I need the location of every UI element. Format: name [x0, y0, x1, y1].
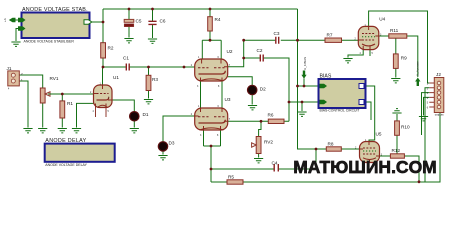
svg-text:C2: C2 [257, 48, 263, 53]
svg-text:R9: R9 [401, 56, 407, 61]
svg-text:ANODE VOLTAGE STABILISER: ANODE VOLTAGE STABILISER [24, 39, 75, 43]
svg-text:RV2: RV2 [264, 140, 273, 145]
svg-text:2: 2 [427, 88, 429, 90]
svg-text:4: 4 [427, 98, 429, 100]
svg-text:4: 4 [8, 89, 10, 91]
svg-text:R5: R5 [228, 174, 234, 179]
svg-text:C3: C3 [274, 31, 280, 36]
svg-text:3: 3 [200, 135, 202, 137]
svg-text:R8: R8 [328, 141, 334, 146]
svg-text:8: 8 [217, 135, 219, 137]
svg-text:R1: R1 [67, 101, 73, 106]
svg-text:R6: R6 [268, 112, 274, 117]
svg-text:J1: J1 [7, 66, 12, 71]
svg-text:2: 2 [21, 72, 23, 76]
svg-text:МАТЮШИН.COM: МАТЮШИН.COM [293, 157, 437, 177]
svg-text:7: 7 [229, 119, 231, 121]
svg-text:RV1: RV1 [50, 76, 59, 81]
svg-text:5: 5 [427, 103, 429, 105]
svg-text:C5: C5 [136, 19, 142, 24]
svg-text:C6: C6 [160, 19, 166, 24]
svg-text:U4: U4 [379, 17, 385, 22]
svg-text:D3: D3 [169, 141, 175, 146]
svg-text:D2: D2 [260, 87, 266, 92]
svg-text:+A: +A [3, 18, 7, 22]
svg-text:U1: U1 [113, 75, 119, 80]
svg-text:R11: R11 [390, 28, 399, 33]
svg-text:5: 5 [372, 53, 374, 55]
svg-text:BIAS: BIAS [320, 74, 332, 80]
svg-text:U3: U3 [225, 97, 231, 102]
svg-text:ANODE VOLTAGE STAB.: ANODE VOLTAGE STAB. [22, 7, 88, 13]
svg-text:4: 4 [93, 111, 95, 113]
svg-text:U_b BIAS: U_b BIAS [303, 57, 307, 70]
svg-text:BIAS-CONTROL CIRCUIT: BIAS-CONTROL CIRCUIT [320, 109, 360, 113]
svg-text:R3: R3 [152, 77, 158, 82]
svg-text:U_A power: U_A power [416, 61, 420, 76]
svg-text:5: 5 [108, 111, 110, 113]
svg-text:U2: U2 [227, 49, 233, 54]
svg-text:R2: R2 [108, 46, 114, 51]
svg-text:ANODE DELAY: ANODE DELAY [45, 138, 86, 144]
svg-text:C4: C4 [272, 160, 278, 165]
svg-text:1: 1 [427, 84, 429, 86]
svg-text:C1: C1 [123, 56, 129, 61]
svg-text:R7: R7 [327, 32, 333, 37]
svg-text:U5: U5 [376, 132, 382, 137]
svg-text:R4: R4 [215, 17, 221, 22]
svg-text:ANODE VOLTAGE DELAY: ANODE VOLTAGE DELAY [45, 163, 87, 167]
svg-text:outputs: outputs [435, 112, 444, 116]
svg-text:8: 8 [218, 86, 220, 88]
svg-text:3: 3 [427, 93, 429, 95]
svg-text:R10: R10 [401, 125, 410, 130]
svg-text:R12: R12 [392, 148, 401, 153]
svg-text:D1: D1 [143, 112, 149, 117]
svg-text:6: 6 [427, 108, 429, 110]
svg-text:J2: J2 [436, 72, 441, 77]
svg-text:3: 3 [197, 86, 199, 88]
